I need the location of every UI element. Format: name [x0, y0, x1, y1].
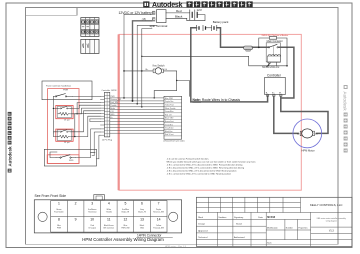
connector J1 4-pin terminal: [150, 10, 168, 29]
label Black wire: [175, 14, 183, 18]
title block texts: [198, 203, 346, 244]
wire battery B1 return loop: [187, 15, 205, 21]
terminal block TB1 (4-way screw block): [81, 18, 99, 37]
title block table: [196, 197, 352, 246]
wire labels on fan: [110, 96, 121, 119]
wire fan rows X1 to X2: [110, 98, 164, 133]
terminal block TB2 (4-way jumper block): [81, 39, 99, 53]
connector X2 14-pin receptacle (right): [164, 96, 185, 142]
wire thick ignition feed (15) from J1 pin2: [133, 18, 152, 101]
wire pot B wiper and ends to harness: [53, 111, 100, 138]
top revision strip box: [26, 8, 78, 16]
svg-text:Autodesk: Autodesk: [7, 146, 12, 167]
wire controller B+ pin to motor A1 (thick): [281, 96, 328, 133]
controller U1: [265, 74, 286, 97]
notes text block: [167, 157, 257, 175]
motor M1 HPM: [293, 119, 322, 153]
key switch S1: [146, 65, 168, 75]
panel cell wire names row 2: [57, 225, 164, 230]
panel cell numbers row 1: [58, 202, 160, 206]
red highlight box (brake pot unit): [56, 129, 73, 141]
panel cell wire names row 1: [54, 208, 164, 214]
junction dot at precharge left: [258, 46, 260, 48]
contactor K1 main contactor: [262, 40, 283, 69]
wire key switch IG to harness: [154, 71, 189, 98]
wire coil supply from key switch: [142, 47, 287, 66]
wire fuse to contactor (thick): [253, 46, 268, 48]
wire contactor output B+ (thick): [279, 47, 294, 98]
wire red lead J1 to battery B1: [166, 12, 189, 14]
panel face 14-pin connector table: [34, 195, 181, 233]
connector X1 14-pin plug (left): [100, 89, 116, 141]
wire battery positive to fuse (thick): [217, 28, 244, 48]
panel cell numbers row 2: [58, 217, 161, 221]
brake pot RV2: [57, 130, 71, 144]
note route wires: [193, 98, 241, 102]
wire J1 pin1 riser: [124, 14, 152, 98]
red highlight box (throttle pot unit): [56, 106, 73, 119]
resistor R1 precharge: [259, 37, 287, 48]
label 12VDC supply: [119, 11, 152, 15]
wire pot A wiper and ends to harness: [71, 96, 101, 114]
svg-text:Autodesk: Autodesk: [343, 92, 348, 112]
enclosure box power switch S2: [42, 81, 92, 100]
label see from front side: [35, 194, 67, 198]
junction dot at precharge right: [286, 46, 288, 48]
wire key switch B+ feed: [123, 29, 153, 108]
wire J1 pin3 riser: [137, 25, 156, 104]
red highlight rectangle (main harness zone): [118, 34, 302, 190]
throttle pot RV1: [57, 106, 71, 121]
wire controller M- to motor A2 (thick): [274, 96, 298, 133]
label 14PIN connector: [137, 234, 173, 238]
wire black lead J1 to battery B1: [166, 17, 187, 19]
svg-text:Autodesk: Autodesk: [152, 2, 183, 9]
coil terminal leads and economizer slash: [267, 62, 288, 66]
wire battery negative B- (thick) to controller: [191, 28, 268, 102]
title text: [82, 237, 164, 242]
watermark top: Autodesk education banner: [143, 1, 253, 9]
wire left common bus: [53, 96, 58, 133]
fuse F1: [244, 46, 253, 51]
red highlight box (left control group): [48, 89, 79, 164]
battery B1 12V: [190, 8, 202, 20]
label Red wire: [176, 9, 182, 13]
wire forward switch to harness (staircase): [50, 129, 100, 159]
label SW180 precharge (red): [262, 35, 289, 37]
watermark left edge (vertical): [7, 112, 12, 173]
junction dots risers onto fan: [123, 97, 155, 105]
enclosure box forward switch S3: [44, 149, 96, 166]
red highlight box (forward switch unit): [47, 155, 79, 164]
watermark right edge (vertical, light): [343, 85, 348, 153]
footer part number: [165, 245, 187, 248]
battery pack BT1: [197, 20, 229, 31]
